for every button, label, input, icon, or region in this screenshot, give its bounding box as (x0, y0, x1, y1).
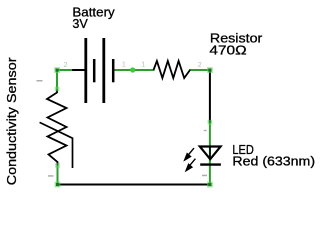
svg-text:Conductivity Sensor: Conductivity Sensor (4, 57, 19, 186)
svg-text:3V: 3V (72, 16, 88, 31)
svg-text:470Ω: 470Ω (209, 42, 247, 57)
svg-text:2: 2 (198, 62, 202, 69)
svg-text:1: 1 (141, 61, 145, 68)
svg-text:Red (633nm): Red (633nm) (232, 153, 315, 168)
svg-text:1: 1 (122, 61, 126, 68)
svg-text:2: 2 (64, 62, 68, 69)
